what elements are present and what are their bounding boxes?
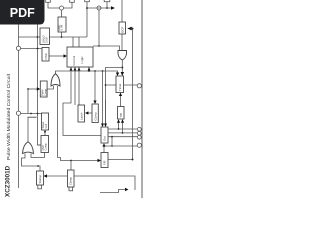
block comp2 L bbox=[41, 136, 49, 153]
wire osc3 top drops bbox=[103, 71, 106, 124]
svg-text:OCP: OCP bbox=[120, 27, 124, 33]
svg-text:Startup: Startup bbox=[38, 174, 42, 183]
wire gate2 left input bbox=[47, 86, 54, 89]
wire blockT bottom arrows bbox=[119, 123, 123, 133]
arrow into drive left bbox=[98, 159, 102, 162]
pin circle left2 bbox=[16, 111, 20, 115]
wire y176 long right bbox=[74, 176, 135, 190]
svg-text:F/B: F/B bbox=[102, 161, 106, 165]
block TSD U10 bbox=[118, 107, 125, 120]
node x112 bbox=[111, 136, 113, 138]
arrow bottom right bbox=[125, 188, 129, 191]
pin box A2 bbox=[70, 0, 75, 2]
svg-text:Clamp: Clamp bbox=[69, 177, 73, 185]
arrows into blockT bottom bbox=[117, 119, 124, 123]
node top B bbox=[106, 7, 108, 9]
pin box B1 bbox=[85, 0, 90, 2]
node x104 y146 bbox=[103, 145, 105, 147]
block Latch U8 bbox=[78, 105, 85, 122]
pin box B2 bbox=[104, 0, 110, 2]
node y37 junctions bbox=[61, 36, 63, 38]
node y71 bbox=[88, 70, 90, 72]
svg-text:Comp: Comp bbox=[44, 143, 48, 150]
node timer-left bbox=[105, 84, 107, 86]
arrow into control bbox=[64, 54, 68, 57]
svg-text:Out: Out bbox=[102, 136, 106, 141]
node pinline T bbox=[118, 128, 120, 130]
arrow into osc3 bottom bbox=[102, 143, 105, 147]
svg-text:Logic: Logic bbox=[80, 56, 84, 64]
svg-text:5.0V: 5.0V bbox=[45, 37, 49, 43]
gate G2 or bbox=[51, 74, 60, 86]
block Drive U12 bbox=[101, 153, 108, 168]
wire comp to latch arrow bbox=[88, 112, 92, 114]
wire gate2 out y71 bus bbox=[56, 71, 118, 74]
wire control bottom arrows bbox=[63, 67, 101, 136]
svg-text:Cntl: Cntl bbox=[44, 123, 48, 128]
wire gate2 right input long bbox=[58, 86, 99, 161]
svg-text:OSC: OSC bbox=[44, 52, 48, 59]
block PWM comparator U7 bbox=[40, 81, 47, 97]
node x37 y49 bbox=[37, 48, 39, 50]
svg-text:Comp: Comp bbox=[93, 112, 97, 120]
arrow into timer top right bbox=[121, 72, 124, 76]
arrows into control bottom bbox=[70, 67, 91, 70]
wire right border rail bbox=[141, 0, 143, 198]
block B U14 bbox=[68, 170, 75, 187]
wire reg drop bbox=[61, 10, 63, 37]
block REG U1 bbox=[58, 17, 66, 32]
arrows into osc3 top bbox=[101, 124, 107, 128]
gate G1 and bbox=[118, 51, 127, 61]
wire blockM drop bbox=[44, 130, 46, 136]
node circleB drop bbox=[98, 45, 100, 47]
pin circle right out bbox=[137, 143, 141, 147]
wire left rail bbox=[18, 22, 20, 188]
block UVLO U2 bbox=[40, 28, 50, 45]
wire top pin group B bbox=[87, 0, 111, 8]
wire drive right bbox=[108, 159, 133, 161]
arrow into blockA bbox=[44, 174, 48, 177]
node blockM bottom bbox=[44, 131, 46, 133]
wire gate3 left input bbox=[22, 154, 41, 172]
wire timer bottom arrow bbox=[120, 96, 122, 107]
wire bottom elbow arrow bbox=[100, 190, 126, 193]
block Comp U9 bbox=[92, 104, 98, 123]
pin square blockA bbox=[38, 185, 42, 189]
block Timer U6 bbox=[116, 76, 124, 93]
node y113 bbox=[30, 113, 32, 115]
wire y37 bus bbox=[19, 8, 88, 47]
wire x28 upper bbox=[27, 89, 29, 114]
node drive wire - blockB stub bbox=[70, 160, 72, 162]
pin square blockB bbox=[69, 187, 73, 191]
wire osc to control arrow bbox=[49, 55, 64, 57]
wire blockB to blockA arrow y176 bbox=[47, 175, 68, 177]
pin circle right1 bbox=[137, 84, 141, 88]
block A U13 bbox=[37, 171, 44, 185]
pin circles right mid bbox=[137, 127, 141, 131]
wire blockP feed arrow bbox=[28, 88, 37, 90]
wire y146 out pin bbox=[104, 145, 137, 147]
pin circle left1 bbox=[16, 46, 20, 50]
wire top pin group A bbox=[48, 0, 72, 8]
wire blockL left feed bbox=[38, 144, 42, 146]
svg-text:Comp: Comp bbox=[43, 89, 47, 96]
wire x112 branch bbox=[111, 137, 113, 146]
wire y67 to osc3 bbox=[106, 68, 123, 126]
node x28 y89 bbox=[27, 88, 29, 90]
wire pin line y113 bbox=[21, 113, 42, 115]
block Osc out U11 bbox=[101, 127, 108, 143]
wire osc3 bottom / drive top bbox=[103, 147, 105, 153]
wire pin circle y49 bbox=[21, 48, 43, 50]
pin circle top A bbox=[60, 6, 64, 10]
svg-text:Control: Control bbox=[72, 55, 76, 65]
svg-text:PDF: PDF bbox=[10, 6, 35, 20]
wire blockB top stub bbox=[70, 161, 72, 171]
PDF badge bbox=[0, 0, 45, 25]
arrow into OCP bbox=[127, 27, 132, 31]
wire ocp right rail bbox=[132, 29, 134, 160]
wire OCP bottom to gate1 bbox=[121, 34, 123, 51]
capacitor plate bbox=[28, 116, 37, 118]
node rail end bbox=[132, 159, 134, 161]
svg-text:Timer: Timer bbox=[118, 83, 122, 91]
wire blockL out to gate3 bbox=[31, 153, 45, 158]
svg-text:Reg: Reg bbox=[57, 25, 61, 31]
svg-text:T/B: T/B bbox=[119, 113, 123, 117]
block slope M bbox=[42, 113, 49, 130]
arrow into timer bottom bbox=[119, 93, 122, 97]
wire timer right to pin bbox=[106, 84, 138, 86]
block OCP U4 bbox=[119, 22, 126, 34]
wire gate1 out bbox=[121, 60, 123, 72]
pin circle top B bbox=[97, 6, 101, 10]
node gate1 out bbox=[121, 67, 123, 69]
arrow into blockP bbox=[37, 87, 41, 90]
wire cap to gate3 out bbox=[27, 117, 29, 142]
pin box A1 bbox=[46, 0, 51, 2]
wire circleB drop bbox=[98, 10, 100, 46]
block OSC U3 bbox=[42, 48, 49, 62]
node y166 bbox=[37, 165, 39, 167]
svg-text:Pulse Width Modulated Control: Pulse Width Modulated Control Circuit bbox=[6, 73, 11, 160]
wire comp drop bbox=[94, 71, 96, 101]
node rail-ocp bbox=[132, 28, 134, 30]
wire mid-left rail bbox=[38, 24, 42, 145]
arrow into comp top bbox=[93, 101, 96, 105]
svg-text:Latch: Latch bbox=[79, 112, 83, 120]
block Control Logic U5 bbox=[67, 47, 93, 67]
gate G3 or bbox=[23, 142, 34, 154]
wire control right to gate1 bbox=[93, 46, 120, 51]
wire OCP top drop bbox=[121, 0, 123, 22]
arrow top right bbox=[111, 6, 115, 9]
svg-text:XCZ3001D: XCZ3001D bbox=[5, 165, 12, 197]
wire osc3 right pin lines bbox=[108, 129, 137, 137]
arrow into timer top left bbox=[116, 73, 119, 77]
arrow into latch bbox=[85, 111, 88, 114]
